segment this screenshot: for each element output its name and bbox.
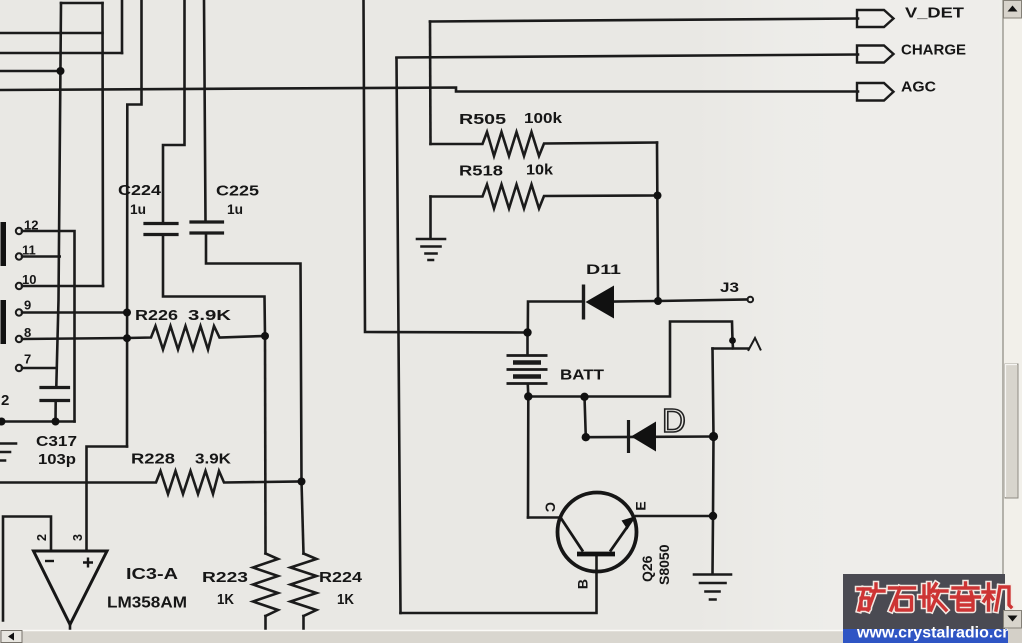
svg-text:12: 12 xyxy=(24,218,38,233)
wire R223 top vertical xyxy=(264,336,267,554)
svg-text:R228: R228 xyxy=(131,452,175,468)
svg-text:10k: 10k xyxy=(526,162,554,179)
svg-text:C225: C225 xyxy=(216,184,259,200)
connector body bars xyxy=(1,222,7,266)
wire CHARGE vertical xyxy=(397,58,401,613)
svg-text:V_DET: V_DET xyxy=(905,6,964,22)
resistor R223 xyxy=(253,554,278,617)
ground left edge xyxy=(0,444,16,461)
wire R518 to ground xyxy=(429,197,432,239)
svg-text:2: 2 xyxy=(1,392,9,409)
svg-text:Q26: Q26 xyxy=(639,555,655,582)
wire V_DET horizontal xyxy=(430,19,858,22)
svg-text:1u: 1u xyxy=(130,202,146,217)
svg-text:11: 11 xyxy=(22,243,36,258)
svg-text:1K: 1K xyxy=(337,592,354,608)
svg-text:CHARGE: CHARGE xyxy=(901,43,966,59)
pin 9 terminal circle xyxy=(16,309,22,315)
junction switch contact xyxy=(729,337,736,344)
right scrollbar down button xyxy=(1004,611,1022,629)
svg-text:8: 8 xyxy=(24,325,31,340)
svg-text:B: B xyxy=(575,579,591,589)
svg-text:www.crystalradio.cn: www.crystalradio.cn xyxy=(856,625,1012,642)
wire emitter xyxy=(636,515,713,518)
capacitor C225 plates xyxy=(191,222,223,233)
watermark blue bar xyxy=(843,629,1008,643)
svg-text:9: 9 xyxy=(24,298,31,313)
diode D xyxy=(629,420,657,453)
watermark box xyxy=(843,574,1005,629)
svg-text:1K: 1K xyxy=(217,592,234,608)
right scrollbar up button xyxy=(1004,1,1022,19)
svg-text:J3: J3 xyxy=(720,279,739,295)
svg-text:3.9K: 3.9K xyxy=(195,452,232,468)
right scrollbar thumb xyxy=(1005,364,1018,498)
scrollbar corner xyxy=(1008,629,1022,643)
resistor R518 xyxy=(431,185,658,209)
wire x184 vertical jog to C224 xyxy=(163,0,185,222)
pin 8 terminal circle xyxy=(16,336,22,342)
pin 7 terminal circle xyxy=(16,365,22,371)
right scrollbar track xyxy=(1003,0,1022,643)
junction R518 right node xyxy=(654,192,662,200)
svg-text:R518: R518 xyxy=(459,163,503,180)
wire collector xyxy=(528,516,561,519)
junction battery bottom node xyxy=(524,392,532,400)
wire x363 vertical to battery node xyxy=(364,0,528,333)
wire CHARGE horizontal xyxy=(397,55,859,58)
junction emitter node xyxy=(709,512,717,520)
wire long left vertical xyxy=(56,3,61,387)
wire switch contact xyxy=(713,341,749,349)
ground below transistor xyxy=(694,575,731,600)
wire C224 bottom to R223 node xyxy=(163,236,265,336)
wire V_DET vertical to R505 xyxy=(429,22,432,145)
svg-text:7: 7 xyxy=(24,352,31,367)
bottom scrollbar left button xyxy=(1,631,22,643)
op-amp U IC3-A xyxy=(34,551,108,625)
junction C317 bottom node xyxy=(52,418,60,426)
svg-text:D11: D11 xyxy=(586,262,622,277)
wire R224 bottom xyxy=(302,616,305,630)
wire x657 vertical R505/R518/D11 junction xyxy=(657,143,658,302)
wire op-amp inverting input xyxy=(3,517,51,621)
wire emitter node to ground xyxy=(711,516,714,574)
wire top jog xyxy=(61,2,103,5)
junction D11 cathode node xyxy=(654,297,662,305)
wire D11 anode xyxy=(528,302,584,333)
svg-text:2: 2 xyxy=(35,534,49,541)
node CHARGE flag xyxy=(857,46,894,63)
wire pin7 xyxy=(22,367,56,370)
pin 12 terminal circle xyxy=(16,228,22,234)
node V_DET flag xyxy=(857,10,894,27)
junction pin 8 R226 node xyxy=(123,334,131,342)
battery BATT xyxy=(507,356,548,384)
wire R223 bottom xyxy=(264,616,267,630)
wire pin11 xyxy=(22,255,60,258)
wire diode D node to emitter xyxy=(712,437,715,517)
svg-text:3: 3 xyxy=(71,534,85,541)
wire C225 bottom to R224 node xyxy=(206,235,302,482)
switch lever caret xyxy=(749,338,761,350)
wire pin9 xyxy=(22,311,127,314)
diode D11 xyxy=(584,285,615,320)
svg-text:3.9K: 3.9K xyxy=(188,308,232,324)
wire R224 top vertical xyxy=(302,482,304,554)
wire y53 horizontal xyxy=(0,52,122,55)
wire op-amp output stub xyxy=(69,625,72,631)
svg-text:LM358AM: LM358AM xyxy=(107,595,187,612)
watermark CJK characters (red with white outline) xyxy=(858,583,1011,610)
wire AGC long horizontal xyxy=(0,88,858,92)
wire pin12 xyxy=(22,231,75,422)
wire pin8 and resistor R226 xyxy=(22,326,265,350)
wire pin10 xyxy=(22,285,103,288)
wire D11 cathode to J3 xyxy=(614,300,748,302)
pin 11 terminal circle xyxy=(16,253,22,259)
svg-text:C224: C224 xyxy=(118,183,161,199)
wire battery top xyxy=(526,333,529,355)
wire battery stub to diode D xyxy=(585,397,586,437)
wire y71 horizontal xyxy=(0,70,61,73)
wire diode D row xyxy=(586,435,714,438)
wire battery plus to switch xyxy=(528,322,732,397)
junction diode D branch top xyxy=(580,393,588,401)
svg-text:C317: C317 xyxy=(36,434,77,450)
resistor R224 xyxy=(291,554,317,617)
capacitor C317 plates xyxy=(41,388,69,401)
wire battery to collector xyxy=(527,397,530,518)
wire battery bottom xyxy=(526,384,529,397)
pin 10 terminal circle xyxy=(16,283,22,289)
capacitor C224 plates xyxy=(145,224,177,235)
svg-text:103p: 103p xyxy=(38,452,76,468)
wire x204 vertical to C225 xyxy=(204,0,206,221)
svg-text:AGC: AGC xyxy=(901,80,937,96)
svg-text:1u: 1u xyxy=(227,202,243,217)
junction left edge node xyxy=(0,418,6,426)
junction diode D anode node xyxy=(582,433,590,441)
junction battery top node xyxy=(523,328,531,336)
junction R226 right node xyxy=(261,332,269,340)
svg-text:S8050: S8050 xyxy=(656,544,672,585)
svg-text:R224: R224 xyxy=(319,570,362,586)
wire jog to op-amp plus input xyxy=(87,447,128,552)
svg-text:R223: R223 xyxy=(202,570,248,586)
wire C317 bottom xyxy=(54,401,57,422)
svg-text:100k: 100k xyxy=(524,110,563,127)
junction pin 9 node xyxy=(123,309,131,317)
bottom scrollbar track xyxy=(0,631,843,643)
svg-text:E: E xyxy=(633,501,649,510)
svg-text:IC3-A: IC3-A xyxy=(126,566,178,583)
node AGC flag xyxy=(857,83,894,101)
junction diode D cathode node xyxy=(709,432,718,441)
wire switch down to diode D node xyxy=(713,349,714,437)
svg-text:C: C xyxy=(543,502,559,512)
ground below R518 xyxy=(417,239,445,260)
wire x102 vertical to pin10 xyxy=(101,3,104,286)
svg-text:D: D xyxy=(662,402,686,439)
wire x141 vertical with jog to x127 xyxy=(127,0,142,447)
wire x122 vertical xyxy=(121,0,124,53)
svg-text:R505: R505 xyxy=(459,111,506,128)
transistor Q26 xyxy=(558,493,637,572)
wire y33 horizontal xyxy=(0,32,103,35)
junction at left bus xyxy=(57,67,65,75)
resistor R228 xyxy=(0,471,302,494)
svg-text:10: 10 xyxy=(22,272,36,287)
wire y421 horizontal xyxy=(0,420,75,423)
svg-text:BATT: BATT xyxy=(560,367,604,384)
junction R228 right node xyxy=(298,478,306,486)
resistor R505 xyxy=(431,132,658,156)
wire base xyxy=(401,556,597,613)
svg-text:R226: R226 xyxy=(135,308,178,324)
connector J3 open circle xyxy=(748,297,754,303)
